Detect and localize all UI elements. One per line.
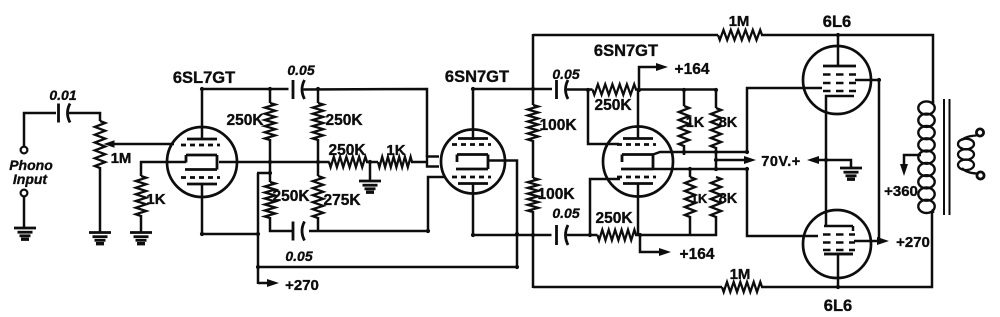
ground: phono ground xyxy=(14,227,36,230)
wiper arrow of pot to 6SL7 grid wire xyxy=(104,140,115,148)
svg-text:6SN7GT: 6SN7GT xyxy=(445,68,509,86)
wire: V2 plate bar extra xyxy=(824,253,853,256)
svg-text:1M: 1M xyxy=(111,150,132,167)
wire: C1 to volume pot top xyxy=(69,112,101,115)
svg-text:0.01: 0.01 xyxy=(49,87,76,103)
wire: R5 bottom stub xyxy=(269,217,272,232)
node: secondary terminal (bottom) xyxy=(977,172,984,179)
wire: U2 plate2 pin down xyxy=(472,183,475,236)
wire: U3 cathode1 run right + riser to 6L6 top grid xyxy=(653,88,822,155)
svg-text:0.05: 0.05 xyxy=(285,248,312,264)
resistor R7 250K (series) xyxy=(329,157,367,167)
wire: U3 cathode2 run right + drop to 6L6 bottom grid xyxy=(653,169,818,236)
wire: V1 cathode bar + common cathode leg xyxy=(825,95,854,98)
arrow + label: +270 (left) xyxy=(258,282,272,285)
svg-text:250K: 250K xyxy=(328,142,366,159)
svg-text:70V.+: 70V.+ xyxy=(761,154,800,170)
svg-text:275K: 275K xyxy=(323,192,361,209)
transformer T1 secondary winding xyxy=(958,139,974,150)
node B: +164 arrow (bottom) xyxy=(640,235,659,252)
wire: bottom rail right xyxy=(761,212,932,287)
wire: R11 to node A xyxy=(635,88,684,91)
svg-text:100K: 100K xyxy=(539,117,577,134)
svg-text:1M: 1M xyxy=(729,13,750,30)
wire: 6SL7 cathode to R2 xyxy=(140,161,186,164)
svg-text:8K: 8K xyxy=(719,115,738,131)
svg-text:1K: 1K xyxy=(686,115,705,131)
wire: R4 bottom to 275K xyxy=(317,139,320,176)
wire: R4 top stub xyxy=(317,88,320,103)
resistor R16 8K (lower) xyxy=(711,177,721,217)
wire: ground stub mid xyxy=(369,161,372,181)
wire: top rail right xyxy=(761,35,933,102)
resistor R18 1M (bottom feedback) xyxy=(722,282,762,292)
wire: U2 cathode exit right xyxy=(489,161,517,269)
capacitor C2 0.05 (top coupling) xyxy=(292,80,295,99)
wire: grid2 feed of U3 xyxy=(590,179,620,235)
svg-text:+164: +164 xyxy=(675,61,710,78)
svg-text:1K: 1K xyxy=(146,191,165,208)
wire: lower bus left of cap xyxy=(269,230,292,233)
svg-text:+360: +360 xyxy=(884,183,918,200)
wire: U1 plate2 pin down xyxy=(201,183,204,235)
svg-text:250K: 250K xyxy=(325,112,363,129)
resistor R5 250K (lower) xyxy=(265,182,275,218)
svg-text:1M: 1M xyxy=(730,266,751,283)
resistor R9 100K (upper) xyxy=(528,105,538,141)
wire: J1 up to input wire xyxy=(23,112,26,147)
tube U3 6SN7GT phase inverter xyxy=(603,127,673,197)
resistor R4 250K xyxy=(313,103,323,140)
svg-text:6L6: 6L6 xyxy=(823,13,851,31)
wire: +270 bus run xyxy=(258,266,517,269)
svg-text:8K: 8K xyxy=(719,191,738,207)
wire: U1 plate1 pin up xyxy=(201,88,204,140)
capacitor C5 0.05 (lower, to inverter) xyxy=(555,225,558,245)
wire: bottom rail left xyxy=(533,286,722,289)
resistor R14 8K (upper) xyxy=(715,89,718,108)
transformer T1 primary winding xyxy=(932,101,935,105)
node: U2 grid entry box xyxy=(427,157,439,167)
capacitor C4 0.05 (upper, to inverter) xyxy=(555,80,558,99)
svg-text:1K: 1K xyxy=(386,142,405,159)
wire: V2 cathode bar xyxy=(824,225,853,228)
resistor R8 1K (series) xyxy=(378,157,412,167)
resistor R3 250K xyxy=(265,103,275,140)
wire: J2 down xyxy=(23,196,26,228)
wire: V1 plate pin xyxy=(837,34,840,67)
wire: lower coupling bus xyxy=(309,177,445,231)
svg-text:0.05: 0.05 xyxy=(552,66,579,82)
wire: between 100K resistors xyxy=(532,140,535,178)
svg-text:250K: 250K xyxy=(594,97,632,114)
node: secondary terminal (top) xyxy=(976,129,983,136)
svg-text:0.05: 0.05 xyxy=(552,205,579,221)
node A: +164 arrow (top) xyxy=(639,67,656,90)
wire: pot bottom lead to ground xyxy=(99,167,102,232)
ground: R2 ground xyxy=(130,231,152,234)
wire: U2 plate2 run right xyxy=(472,234,552,237)
wire: input top run to C1 xyxy=(23,112,56,115)
tube V1 6L6 (top) xyxy=(803,46,871,114)
svg-text:6L6: 6L6 xyxy=(824,297,852,315)
svg-text:6SN7GT: 6SN7GT xyxy=(594,42,658,60)
resistor R10 100K (lower) xyxy=(528,178,538,212)
svg-text:+270: +270 xyxy=(896,234,930,251)
svg-text:100K: 100K xyxy=(537,186,575,203)
resistor R11 250K (inverter top) xyxy=(593,84,637,94)
wire: node A to 1K/8K tops xyxy=(683,88,717,91)
svg-text:Input: Input xyxy=(13,171,49,187)
wire: pot top lead xyxy=(99,112,102,121)
resistor R12 250K (inverter bottom) xyxy=(598,230,637,240)
resistor R6 275K xyxy=(313,176,323,218)
tube V2 6L6 (bottom) xyxy=(803,210,871,278)
potentiometer R1 1M (volume) xyxy=(95,121,105,168)
wire: U3 plate2 pin down xyxy=(637,184,640,236)
resistor R2 1K (cathode) xyxy=(140,161,143,176)
svg-text:250K: 250K xyxy=(595,210,633,227)
wire: R3 bottom to R5 top xyxy=(269,139,272,182)
wire: C4 to 250K R11 xyxy=(567,88,593,91)
wire: U3 plate1 pin up xyxy=(637,89,640,139)
svg-text:250K: 250K xyxy=(272,188,310,205)
wire: stub to 250K string xyxy=(257,172,270,175)
wire: U2 plate1 run right xyxy=(472,88,552,91)
transformer T1 core xyxy=(943,99,945,215)
wire: V2 screen exit + +270 arrow xyxy=(854,240,880,243)
wire: C5 to R12 xyxy=(567,234,598,237)
node: phono input ground terminal J2 xyxy=(21,190,28,197)
resistor R17 1M (top feedback) xyxy=(718,30,762,40)
wire + arrow: +360 tap xyxy=(904,155,921,168)
wire: grid1 feed of U3 xyxy=(588,90,619,144)
svg-text:0.05: 0.05 xyxy=(287,62,314,78)
tube U2 6SN7GT dual triode xyxy=(441,130,505,194)
wire: 250K R3 top stub xyxy=(269,88,272,103)
ground: divider ground xyxy=(359,180,381,183)
ground: 6L6 cathode ground xyxy=(840,167,862,170)
wire: C2 to grid bus corner xyxy=(304,89,428,157)
wire: R7 to R8 xyxy=(366,161,378,164)
wire: cathode tap to ground xyxy=(825,160,851,168)
wire: U1 triode2 grid run xyxy=(219,161,330,164)
wire + arrow: 70V pointer (right) xyxy=(813,159,826,162)
svg-text:250K: 250K xyxy=(226,112,264,129)
wire: top rail xyxy=(533,34,718,37)
capacitor C1 0.01 xyxy=(57,104,60,123)
wire: R10 bottom to bottom rail xyxy=(532,211,535,288)
wire: R6 bottom stub xyxy=(317,217,320,232)
capacitor C3 0.05 (lower coupling) xyxy=(292,222,295,241)
resistor R13 1K (upper) xyxy=(683,89,686,106)
svg-text:6SL7GT: 6SL7GT xyxy=(173,69,235,87)
wire + arrow: 70V pointer (left) xyxy=(716,159,748,162)
wire: V1 screen exit right + screen bus xyxy=(855,80,879,242)
ground: pot ground xyxy=(89,231,111,234)
resistor R15 1K (lower) xyxy=(689,168,692,177)
wire: U1 plate2 run right xyxy=(202,233,259,236)
tube U1 6SL7GT dual triode xyxy=(167,127,237,197)
node: phono input hot terminal J1 xyxy=(21,147,28,154)
wire: V2 plate pin down xyxy=(837,254,840,287)
wire: top rail riser / 100K string top xyxy=(532,34,535,105)
svg-text:+164: +164 xyxy=(680,246,715,263)
wire: U2 plate1 pin up xyxy=(472,88,475,140)
wire: R8 to U2 grid box xyxy=(411,161,428,164)
svg-text:+270: +270 xyxy=(285,277,319,294)
wire: U1 plate1 top run to C2 xyxy=(201,88,289,91)
wire: R12 to node B xyxy=(635,234,717,237)
svg-text:1K: 1K xyxy=(691,191,708,206)
wire: plate2 riser to +270 tap xyxy=(257,173,260,284)
node junctions (solder blobs) xyxy=(268,87,272,91)
